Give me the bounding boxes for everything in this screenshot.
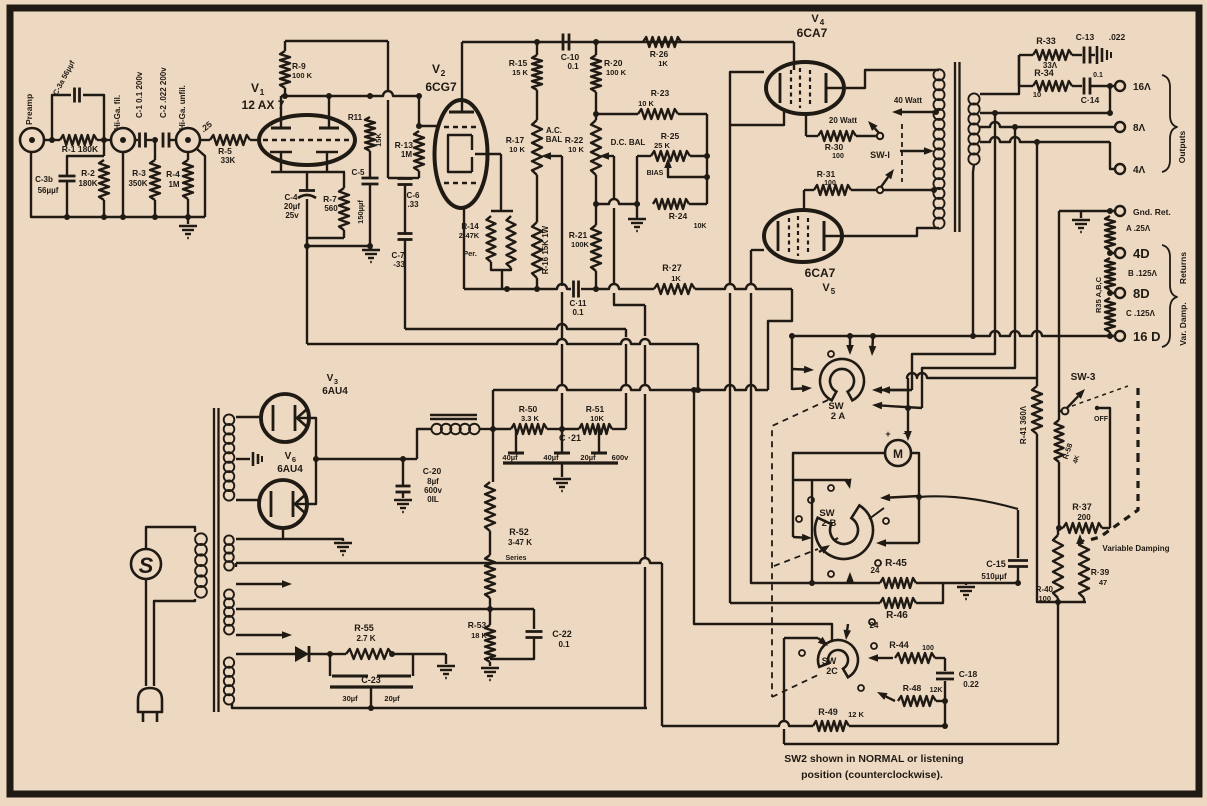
svg-text:C-15: C-15 xyxy=(986,559,1006,569)
svg-text:C-13: C-13 xyxy=(1076,32,1095,42)
ground xyxy=(481,668,499,680)
16D feedback row xyxy=(973,331,1110,336)
svg-text:C-22: C-22 xyxy=(552,629,572,639)
T2 secondary xyxy=(968,93,979,164)
HV center tap cap xyxy=(236,452,262,466)
resistor R48 xyxy=(877,683,948,706)
svg-text:180K: 180K xyxy=(78,179,97,188)
filament wire xyxy=(236,528,343,541)
svg-text:R·31: R·31 xyxy=(817,169,836,179)
capacitor C11 xyxy=(570,281,599,318)
svg-text:C-20: C-20 xyxy=(423,466,442,476)
switch SW2B rotor xyxy=(815,505,884,559)
resistor R7 xyxy=(323,172,349,238)
resistor R41 xyxy=(1019,378,1042,560)
svg-text:R-52: R-52 xyxy=(509,527,529,537)
svg-text:2 B: 2 B xyxy=(822,518,837,529)
resistor R55 xyxy=(327,623,446,659)
capacitor C18 xyxy=(936,658,979,701)
meter M xyxy=(885,428,911,466)
wire xyxy=(281,91,422,99)
resistor R51 xyxy=(562,404,626,434)
svg-text:47: 47 xyxy=(1099,578,1107,587)
wire xyxy=(403,458,417,460)
SW3 dash xyxy=(1072,386,1128,406)
ground xyxy=(179,217,197,238)
svg-text:R-30: R-30 xyxy=(825,142,844,152)
svg-text:560: 560 xyxy=(324,204,338,213)
svg-text:C .125Λ: C .125Λ xyxy=(1126,309,1156,318)
switch SW2A rotor xyxy=(820,359,864,422)
meter right wire xyxy=(911,453,922,543)
wire xyxy=(695,284,792,289)
resistor R21 xyxy=(569,175,601,289)
V6 cathode xyxy=(293,491,307,517)
V2 grid box xyxy=(448,135,501,172)
damping bus xyxy=(1037,560,1086,605)
resistor R5 xyxy=(210,135,250,165)
8 ohm tap xyxy=(980,122,1114,130)
svg-text:4Λ: 4Λ xyxy=(1133,165,1146,176)
svg-text:2-47K: 2-47K xyxy=(459,231,480,240)
svg-text:.022: .022 xyxy=(1109,32,1126,42)
svg-text:R-51: R-51 xyxy=(586,404,605,414)
SW2A arrows left xyxy=(792,366,814,393)
svg-text:2C: 2C xyxy=(826,666,838,676)
arrow xyxy=(876,539,919,547)
svg-text:10 K: 10 K xyxy=(568,145,584,154)
svg-text:V: V xyxy=(327,373,334,384)
svg-text:16 D: 16 D xyxy=(1133,329,1160,344)
svg-text:510µµf: 510µµf xyxy=(981,572,1007,581)
wire xyxy=(694,390,832,640)
svg-text:R-45: R-45 xyxy=(885,558,907,569)
svg-text:V: V xyxy=(432,62,440,76)
svg-text:Returns: Returns xyxy=(1178,252,1188,284)
svg-text:15 K: 15 K xyxy=(512,68,528,77)
resistor R44 xyxy=(868,640,945,663)
svg-text:position (counterclockwise).: position (counterclockwise). xyxy=(801,769,943,781)
resistor R24 xyxy=(596,199,707,230)
NFB bus xyxy=(493,385,768,393)
wire xyxy=(306,246,308,344)
gang dashed link xyxy=(772,400,838,697)
V5 cathode bar xyxy=(777,221,780,251)
loop 4ohm xyxy=(904,142,1037,441)
ground return row xyxy=(1059,208,1114,214)
ground xyxy=(628,204,646,231)
20W tap arrow xyxy=(883,147,937,193)
node xyxy=(152,137,158,143)
capacitor C13 xyxy=(1072,32,1126,64)
resistor R34 xyxy=(1019,68,1072,99)
svg-text:R·13: R·13 xyxy=(395,140,414,150)
V1 cathode 2 xyxy=(316,152,338,172)
svg-text:0.1: 0.1 xyxy=(572,308,584,317)
wire xyxy=(250,139,260,141)
V4 cathode bar xyxy=(779,73,782,103)
capacitor C23 xyxy=(330,654,413,708)
wire xyxy=(943,580,1021,586)
variable damping dash xyxy=(1086,388,1170,553)
svg-text:Hi-Ga. fil.: Hi-Ga. fil. xyxy=(113,95,122,130)
meter left wire xyxy=(793,453,885,541)
svg-text:0.22: 0.22 xyxy=(963,680,979,689)
resistor R22 xyxy=(565,92,646,175)
loop 8ohm xyxy=(872,127,1015,411)
svg-text:Variable Damping: Variable Damping xyxy=(1102,544,1169,553)
T1 winding 2 xyxy=(224,589,234,634)
cathode row xyxy=(464,284,571,292)
svg-text:R-46: R-46 xyxy=(886,610,908,621)
svg-text:100: 100 xyxy=(824,180,836,187)
SW2B bottom arrow xyxy=(846,572,854,583)
svg-text:R-2: R-2 xyxy=(81,168,95,178)
T1 winding 3 xyxy=(224,657,234,704)
resistor R53 xyxy=(468,620,495,666)
V4 grid dashes xyxy=(791,68,810,108)
resistor R37 xyxy=(1056,502,1110,533)
V2 cathode lead xyxy=(463,208,465,289)
SW2B contacts xyxy=(796,485,889,577)
resistor R15 xyxy=(509,42,542,90)
svg-text:0IL: 0IL xyxy=(427,495,439,504)
resistor R25 xyxy=(637,131,707,161)
transformer T1 core xyxy=(214,408,219,712)
svg-text:R-1 180K: R-1 180K xyxy=(62,144,99,154)
svg-text:R-3: R-3 xyxy=(132,168,146,178)
svg-text:C-18: C-18 xyxy=(959,669,978,679)
svg-text:.33: .33 xyxy=(407,200,419,209)
V5 plate xyxy=(823,221,826,251)
svg-text:30µf: 30µf xyxy=(342,694,358,703)
svg-text:C ·21: C ·21 xyxy=(559,433,581,443)
svg-text:C-10: C-10 xyxy=(561,52,580,62)
svg-text:24: 24 xyxy=(870,621,879,630)
resistor R4 xyxy=(166,152,193,217)
capacitor C20 xyxy=(396,459,443,504)
svg-text:R-33: R-33 xyxy=(1036,36,1056,46)
resistor R30 xyxy=(806,131,876,160)
svg-text:100: 100 xyxy=(922,645,934,652)
svg-text:R-9: R-9 xyxy=(292,61,306,71)
svg-text:Var. Damp.: Var. Damp. xyxy=(1178,302,1188,345)
wire xyxy=(493,426,565,432)
wire xyxy=(500,154,502,211)
svg-text:6CG7: 6CG7 xyxy=(425,80,457,94)
resistor R46 xyxy=(880,584,943,621)
resistor R16 xyxy=(532,175,550,289)
svg-text:10K: 10K xyxy=(694,223,707,230)
T1 primary winding xyxy=(195,533,207,597)
SW2C box xyxy=(784,638,818,744)
svg-text:SW2 shown in NORMAL or listeni: SW2 shown in NORMAL or listening xyxy=(784,753,963,765)
resistor R13 xyxy=(395,96,424,178)
gang dash to SW2C xyxy=(772,674,820,697)
capacitor C22 xyxy=(490,609,572,659)
capacitor C5 xyxy=(352,151,379,246)
row 603 xyxy=(730,602,880,604)
svg-text:R-17: R-17 xyxy=(506,135,525,145)
tube V3 6AU4 xyxy=(261,373,348,442)
resistor R39 xyxy=(1079,540,1109,602)
input jack J1 Preamp xyxy=(20,94,44,152)
svg-text:Hi-Ga. unfil.: Hi-Ga. unfil. xyxy=(178,85,187,130)
tube V4 6CA7 xyxy=(766,13,844,114)
heater arrow xyxy=(236,580,292,588)
wire xyxy=(634,156,640,207)
ground xyxy=(553,479,571,491)
svg-text:100 K: 100 K xyxy=(292,71,313,80)
V4 plate xyxy=(825,73,828,103)
feedback row (C7) xyxy=(405,324,626,429)
svg-text:Outputs: Outputs xyxy=(1177,130,1187,163)
svg-text:25v: 25v xyxy=(285,211,299,220)
tube V1 12AX7 xyxy=(242,81,355,165)
svg-text:10: 10 xyxy=(1033,90,1041,99)
SW2B inner wire xyxy=(811,480,813,583)
svg-text:2 A: 2 A xyxy=(831,411,846,422)
svg-text:100K: 100K xyxy=(571,240,590,249)
svg-text:4D: 4D xyxy=(1133,246,1150,261)
bottom loop xyxy=(784,743,1058,745)
BIAS wiper xyxy=(647,158,707,177)
svg-text:R·39: R·39 xyxy=(1091,567,1110,577)
wire xyxy=(596,284,654,289)
svg-text:20 Watt: 20 Watt xyxy=(829,116,857,125)
svg-text:C-23: C-23 xyxy=(361,675,381,685)
svg-text:R·23: R·23 xyxy=(651,88,670,98)
SW2A wiring box xyxy=(768,289,792,390)
svg-text:R-14: R-14 xyxy=(461,222,479,231)
node .25 label xyxy=(198,119,214,134)
svg-text:600v: 600v xyxy=(424,486,442,495)
wire to C15 xyxy=(919,496,1018,509)
V5 plate lead xyxy=(824,228,939,236)
svg-text:R-41 360Λ: R-41 360Λ xyxy=(1019,405,1028,444)
wire top loop xyxy=(285,40,388,42)
SW2C top arrows xyxy=(818,624,851,646)
svg-text:C·14: C·14 xyxy=(1081,95,1100,105)
svg-text:R35 A,B,C: R35 A,B,C xyxy=(1094,276,1103,313)
svg-text:R-49: R-49 xyxy=(818,707,838,717)
svg-text:12K: 12K xyxy=(930,687,943,694)
wire xyxy=(405,177,419,179)
svg-text:R-48: R-48 xyxy=(903,683,922,693)
svg-text:25 K: 25 K xyxy=(654,141,670,150)
terminal 16D xyxy=(1107,329,1160,344)
svg-text:40µf: 40µf xyxy=(543,453,559,462)
contact xyxy=(799,619,879,691)
resistor R27 xyxy=(654,263,695,294)
svg-text:R-21: R-21 xyxy=(569,230,588,240)
V1 grid (dashed) xyxy=(263,139,351,142)
row 583 xyxy=(751,580,880,586)
svg-text:R-22: R-22 xyxy=(565,135,584,145)
ground xyxy=(362,246,380,262)
svg-text:1M: 1M xyxy=(168,180,179,189)
svg-text:R-44: R-44 xyxy=(889,640,909,650)
V1 cathode 1 xyxy=(270,152,292,172)
svg-text:R-55: R-55 xyxy=(354,623,374,633)
ground xyxy=(334,543,352,555)
outputs brace xyxy=(1162,75,1187,172)
V1 cathode bus xyxy=(271,171,345,173)
SW2A arrows top xyxy=(828,336,876,357)
svg-text:C-6: C-6 xyxy=(407,191,420,200)
svg-text:R-4: R-4 xyxy=(166,169,180,179)
svg-text:150µµf: 150µµf xyxy=(356,200,365,224)
row to SW2A xyxy=(792,333,976,339)
svg-text:0.1: 0.1 xyxy=(567,62,579,71)
resistor R35C xyxy=(1105,298,1156,332)
svg-text:2: 2 xyxy=(441,68,446,78)
svg-text:16Λ: 16Λ xyxy=(1133,82,1151,93)
V2 grid dashes xyxy=(444,127,479,183)
svg-text:R-7: R-7 xyxy=(323,194,337,204)
resistor R2 xyxy=(78,160,109,217)
wire xyxy=(236,416,261,418)
svg-text:1K: 1K xyxy=(658,59,668,68)
wire xyxy=(122,152,124,217)
terminal 8D xyxy=(1107,286,1150,301)
switch SW2C rotor xyxy=(818,640,858,677)
resistor R26 xyxy=(643,37,681,68)
V4 beam box xyxy=(730,72,784,125)
svg-text:3: 3 xyxy=(334,377,338,386)
svg-text:10K: 10K xyxy=(590,414,604,423)
resistor R52 xyxy=(485,429,532,625)
arrow xyxy=(880,494,919,502)
terminal Gnd Ret xyxy=(1115,206,1171,217)
capacitor C4 xyxy=(284,172,316,238)
resistor R35A xyxy=(1105,216,1151,250)
svg-text:C-2 .022 200v: C-2 .022 200v xyxy=(159,67,168,118)
ground xyxy=(1072,211,1090,232)
wire xyxy=(1057,602,1059,744)
svg-text:8µf: 8µf xyxy=(427,477,439,486)
resistor R17 xyxy=(506,90,563,175)
svg-text:SW: SW xyxy=(822,656,837,666)
svg-text:40 Watt: 40 Watt xyxy=(894,96,922,105)
choke L1 xyxy=(431,424,479,435)
svg-text:40µf: 40µf xyxy=(502,453,518,462)
terminal 8 ohm xyxy=(1115,122,1146,134)
svg-text:20µf: 20µf xyxy=(580,453,596,462)
resistor R31 xyxy=(804,169,877,195)
bias tap wire xyxy=(236,606,534,612)
SW1 gang dash xyxy=(901,124,903,182)
svg-text:R·26: R·26 xyxy=(650,49,669,59)
switch SW3 xyxy=(1062,372,1096,414)
wire xyxy=(154,599,195,686)
svg-text:S: S xyxy=(139,553,154,578)
4 ohm tap xyxy=(980,137,1114,169)
svg-text:10 K: 10 K xyxy=(509,145,525,154)
input jack J2 Hi-Ga. fil. xyxy=(111,95,135,152)
capacitor C3b xyxy=(35,156,104,217)
svg-text:8Λ: 8Λ xyxy=(1133,123,1146,134)
svg-text:C-7: C-7 xyxy=(392,251,405,260)
top B+ bus xyxy=(462,39,794,45)
wire xyxy=(304,238,310,249)
40 Watt contact xyxy=(892,96,939,116)
switch SW1 label xyxy=(870,150,890,160)
svg-text:R·37: R·37 xyxy=(1072,502,1092,512)
svg-text:-33: -33 xyxy=(393,260,405,269)
wire xyxy=(49,137,111,143)
plug xyxy=(138,688,162,722)
ground xyxy=(437,654,455,678)
svg-text:M: M xyxy=(893,447,903,461)
svg-text:18 K: 18 K xyxy=(471,631,487,640)
resistor R50 xyxy=(511,404,547,434)
svg-text:SW-I: SW-I xyxy=(870,150,890,160)
svg-text:0.1: 0.1 xyxy=(1093,72,1103,79)
R37 wiper xyxy=(1076,534,1084,545)
wire xyxy=(419,125,437,127)
terminal 4D xyxy=(1107,246,1150,261)
wire xyxy=(197,149,205,217)
resistor R49 xyxy=(662,701,948,731)
svg-text:6AU4: 6AU4 xyxy=(277,464,303,475)
svg-text:3.3 K: 3.3 K xyxy=(521,414,540,423)
svg-text:6CA7: 6CA7 xyxy=(805,266,836,280)
svg-text:BIAS: BIAS xyxy=(647,170,664,177)
V4 screen lead xyxy=(805,114,807,136)
wire xyxy=(479,426,496,432)
secondary bottom xyxy=(973,164,974,336)
secondary top tap xyxy=(980,55,1019,94)
svg-text:R-15: R-15 xyxy=(509,58,528,68)
V3 cathode xyxy=(295,405,309,431)
svg-text:V: V xyxy=(811,13,819,25)
V5 beam box xyxy=(751,249,764,251)
T1 filament winding 1 xyxy=(224,535,234,570)
svg-text:D.C. BAL: D.C. BAL xyxy=(611,138,646,147)
resistor R35B xyxy=(1094,258,1158,313)
resistor R58 xyxy=(1055,411,1082,528)
SW3 off contact xyxy=(1094,406,1110,423)
wire xyxy=(417,429,432,459)
svg-text:C-4: C-4 xyxy=(285,193,298,202)
svg-text:100 K: 100 K xyxy=(606,68,627,77)
svg-text:1K: 1K xyxy=(671,274,681,283)
svg-text:Preamp: Preamp xyxy=(24,94,34,125)
16 ohm tap xyxy=(980,86,1113,116)
wire xyxy=(307,237,344,239)
V5 screen lead xyxy=(803,190,805,211)
ground xyxy=(394,500,412,512)
svg-text:V: V xyxy=(251,81,259,95)
svg-text:R-50: R-50 xyxy=(519,404,538,414)
wire xyxy=(236,499,259,501)
svg-text:C-1 0.1 200v: C-1 0.1 200v xyxy=(135,71,144,118)
DC BAL wiper xyxy=(599,152,645,708)
svg-text:12 AX 7: 12 AX 7 xyxy=(242,98,285,112)
returns brace xyxy=(1162,245,1188,347)
V1 plate 2 xyxy=(319,96,339,128)
svg-text:–: – xyxy=(903,428,909,439)
wire xyxy=(1059,211,1062,411)
capacitor C3a xyxy=(51,59,104,156)
bias column xyxy=(704,114,710,204)
heater arrow xyxy=(236,631,292,639)
resistor R45 xyxy=(871,558,943,588)
wire xyxy=(388,177,405,179)
capacitor C10 xyxy=(561,34,580,72)
capacitor C1 xyxy=(135,71,152,147)
